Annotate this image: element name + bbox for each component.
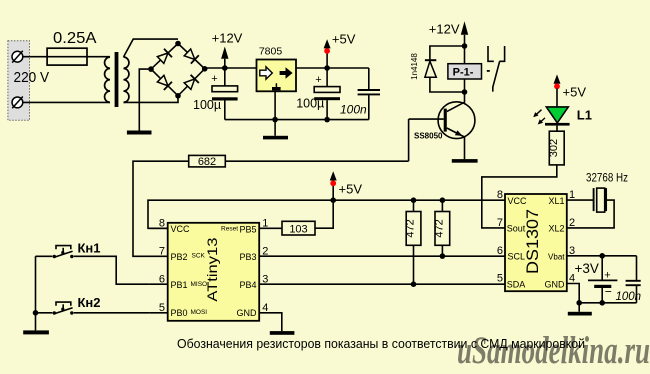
wire fuse to transformer [87,56,110,58]
ground transformer [127,131,152,135]
wire +5V rail mcu [148,200,505,228]
svg-text:Reset: Reset [221,226,238,233]
svg-text:Vbat: Vbat [548,252,565,261]
node 472 left top [411,197,417,203]
diode VD2 top-right [183,48,198,63]
IC U2 DS1307 body [505,194,567,291]
svg-text:2: 2 [569,217,575,229]
svg-text:100µ: 100µ [296,97,324,111]
svg-text:Sout: Sout [507,224,526,234]
node bridge bottom [175,93,181,99]
wire 302 to Sout [482,165,557,228]
wire Vbat row [567,255,637,257]
svg-text:0.25A: 0.25A [53,30,97,47]
wire secondary top to bridge [124,39,179,57]
node 472 right top [440,197,446,203]
wire ground rail [225,119,369,121]
fuse F1 [47,48,87,65]
svg-text:+: + [315,74,321,86]
node 472 left bottom [411,281,417,287]
svg-text:7: 7 [159,245,165,257]
resistor R5 472 right [435,200,450,256]
wire mains bottom [23,101,110,103]
svg-text:+5V: +5V [563,84,587,99]
node +5V b [330,197,336,203]
wire 103 to PB5 [259,227,282,229]
svg-text:2: 2 [262,245,268,257]
svg-text:PB4: PB4 [239,280,256,290]
wire +5V rail top [296,67,369,69]
button Kn1 [53,246,74,259]
mech link dash [487,70,490,72]
svg-text:100n: 100n [340,102,367,116]
svg-text:32768 Hz: 32768 Hz [586,172,628,184]
power symbol +5V led [554,74,561,107]
svg-text:7805: 7805 [259,45,283,57]
capacitor C2 100u [314,68,340,120]
svg-text:472: 472 [405,219,417,237]
svg-text:SCK: SCK [192,253,206,260]
transformer T1 primary [105,57,110,102]
svg-text:SDA: SDA [507,279,526,289]
svg-text:3: 3 [569,245,575,257]
wire rtc gnd rail [579,302,636,304]
svg-text:MOSI: MOSI [191,309,208,316]
svg-text:PB3: PB3 [239,252,256,262]
svg-text:PB5: PB5 [239,224,256,234]
svg-text:472: 472 [433,219,445,237]
power symbol +5V b [330,171,337,200]
node Kn2 rail [33,310,39,316]
pin 5 stub [150,312,168,314]
svg-text:XL2: XL2 [548,224,564,234]
regulator U3 7805 [257,60,297,92]
wire mcu gnd [259,313,282,331]
diode VD3 bottom-left [157,75,172,90]
wire rtc gnd pin [567,284,579,312]
battery G1 +3V [588,256,617,303]
svg-text:L1: L1 [577,108,592,123]
wire Kn1 left [36,255,53,257]
capacitor C4 100n [626,256,641,303]
svg-text:uSamodelkina.ru: uSamodelkina.ru [457,329,650,372]
capacitor C1 100u [211,68,237,120]
svg-text:103: 103 [289,223,307,235]
node relay top [462,43,468,49]
transistor Q1 SS8050 [409,92,475,159]
wire 682 to base [225,160,408,162]
capacitor C3 100n [358,68,380,120]
svg-text:−: − [605,285,612,299]
relay contact K1.1 [488,46,505,92]
node gnd 7805 [272,117,278,123]
svg-text:+12V: +12V [212,30,243,45]
resistor R3 302 [549,131,564,165]
wire +5V to 103 [315,200,333,228]
wire 7805 gnd pin [274,90,276,135]
transformer T1 secondary [124,57,129,102]
svg-text:7: 7 [497,217,503,229]
wire Kn2 to PB0 [74,312,150,314]
svg-text:Кн1: Кн1 [78,241,101,256]
svg-text:PB0: PB0 [171,308,188,318]
svg-text:6: 6 [497,245,503,257]
svg-text:GND: GND [237,308,258,318]
ground transistor [452,159,478,163]
IC U1 ATtiny13 body [168,223,260,321]
node 472 right bottom [440,253,446,259]
node bridge right [202,66,208,72]
node bridge left [148,66,154,72]
wire relay coil top [464,46,466,64]
svg-text:+: + [604,269,610,281]
power symbol +12V relay [461,21,468,46]
svg-text:Кн2: Кн2 [78,295,101,310]
svg-text:PB1: PB1 [171,280,188,290]
resistor R4 472 left [406,200,421,284]
button Kn2 [53,302,74,315]
svg-text:VCC: VCC [171,224,191,234]
diode VD5 1n4148 [425,46,465,92]
svg-text:SCL: SCL [508,252,526,262]
power symbol +12V [221,47,228,69]
ground buttons [23,330,49,334]
LED L1 [533,107,569,126]
svg-text:6: 6 [159,273,165,285]
resistor R2 103 [282,221,315,235]
wire SCL row [259,255,505,257]
node gnd C2 [324,117,330,123]
node rtc gnd [576,300,582,306]
svg-text:220 V: 220 V [14,69,50,86]
wire buttons ground rail [36,256,53,330]
wire 682 to PB2 [133,161,189,256]
diode VD4 bottom-right [183,75,198,90]
svg-text:XL1: XL1 [548,196,564,206]
pin 6 stub [150,283,168,285]
svg-text:PB2: PB2 [171,252,188,262]
svg-text:1: 1 [262,217,268,229]
crystal Y1 [567,188,614,228]
node relay bottom [462,89,468,95]
svg-text:SS8050: SS8050 [414,131,443,140]
svg-text:8: 8 [159,217,165,229]
ground 7805 [263,136,288,140]
node bridge top [175,41,181,47]
wire secondary bottom to bridge [124,96,179,103]
svg-text:DS1307: DS1307 [523,209,542,274]
bridge rectifier frame [151,44,205,96]
svg-text:ATtiny13: ATtiny13 [204,237,220,301]
svg-text:+12V: +12V [429,22,460,37]
svg-text:5: 5 [497,273,503,285]
svg-text:+5V: +5V [339,182,363,197]
svg-text:5: 5 [159,302,165,314]
node battery top [599,253,605,259]
svg-text:VCC: VCC [508,196,528,206]
svg-text:+3V: +3V [575,261,599,276]
wire relay coil bottom [464,79,466,92]
svg-text:+: + [211,73,217,85]
plug terminal block X1 [8,41,30,121]
svg-text:MISO: MISO [191,281,208,288]
wire base to 682 [408,119,410,161]
svg-text:1n4148: 1n4148 [410,53,419,80]
ground mcu [270,331,295,335]
wire mains top [23,56,47,58]
transformer T1 core [115,52,119,107]
node C1 top [222,65,228,71]
pin 8 VCC stub [150,227,168,229]
svg-text:682: 682 [198,156,216,168]
node battery bottom [599,300,605,306]
svg-text:+5V: +5V [332,32,356,47]
resistor R1 682 [189,155,226,167]
svg-text:GND: GND [545,279,566,289]
wire +12V rail [205,67,257,69]
svg-text:1: 1 [569,189,575,201]
ground rtc [568,312,592,316]
wire led to 302 [556,126,558,132]
power symbol +5V a [324,39,331,68]
wire SDA row [259,283,505,285]
svg-text:8: 8 [497,189,503,201]
svg-text:302: 302 [548,139,560,157]
svg-text:Р-1-: Р-1- [453,66,474,78]
svg-text:3: 3 [262,273,268,285]
relay coil K1 P-1 [448,64,482,79]
wire Kn1 to PB1 [74,256,150,284]
node C2 top [324,65,330,71]
diode VD1 top-left [157,49,172,64]
wire bridge minus to ground [139,69,151,130]
svg-text:100µ: 100µ [193,98,221,112]
svg-text:100n: 100n [616,291,642,303]
